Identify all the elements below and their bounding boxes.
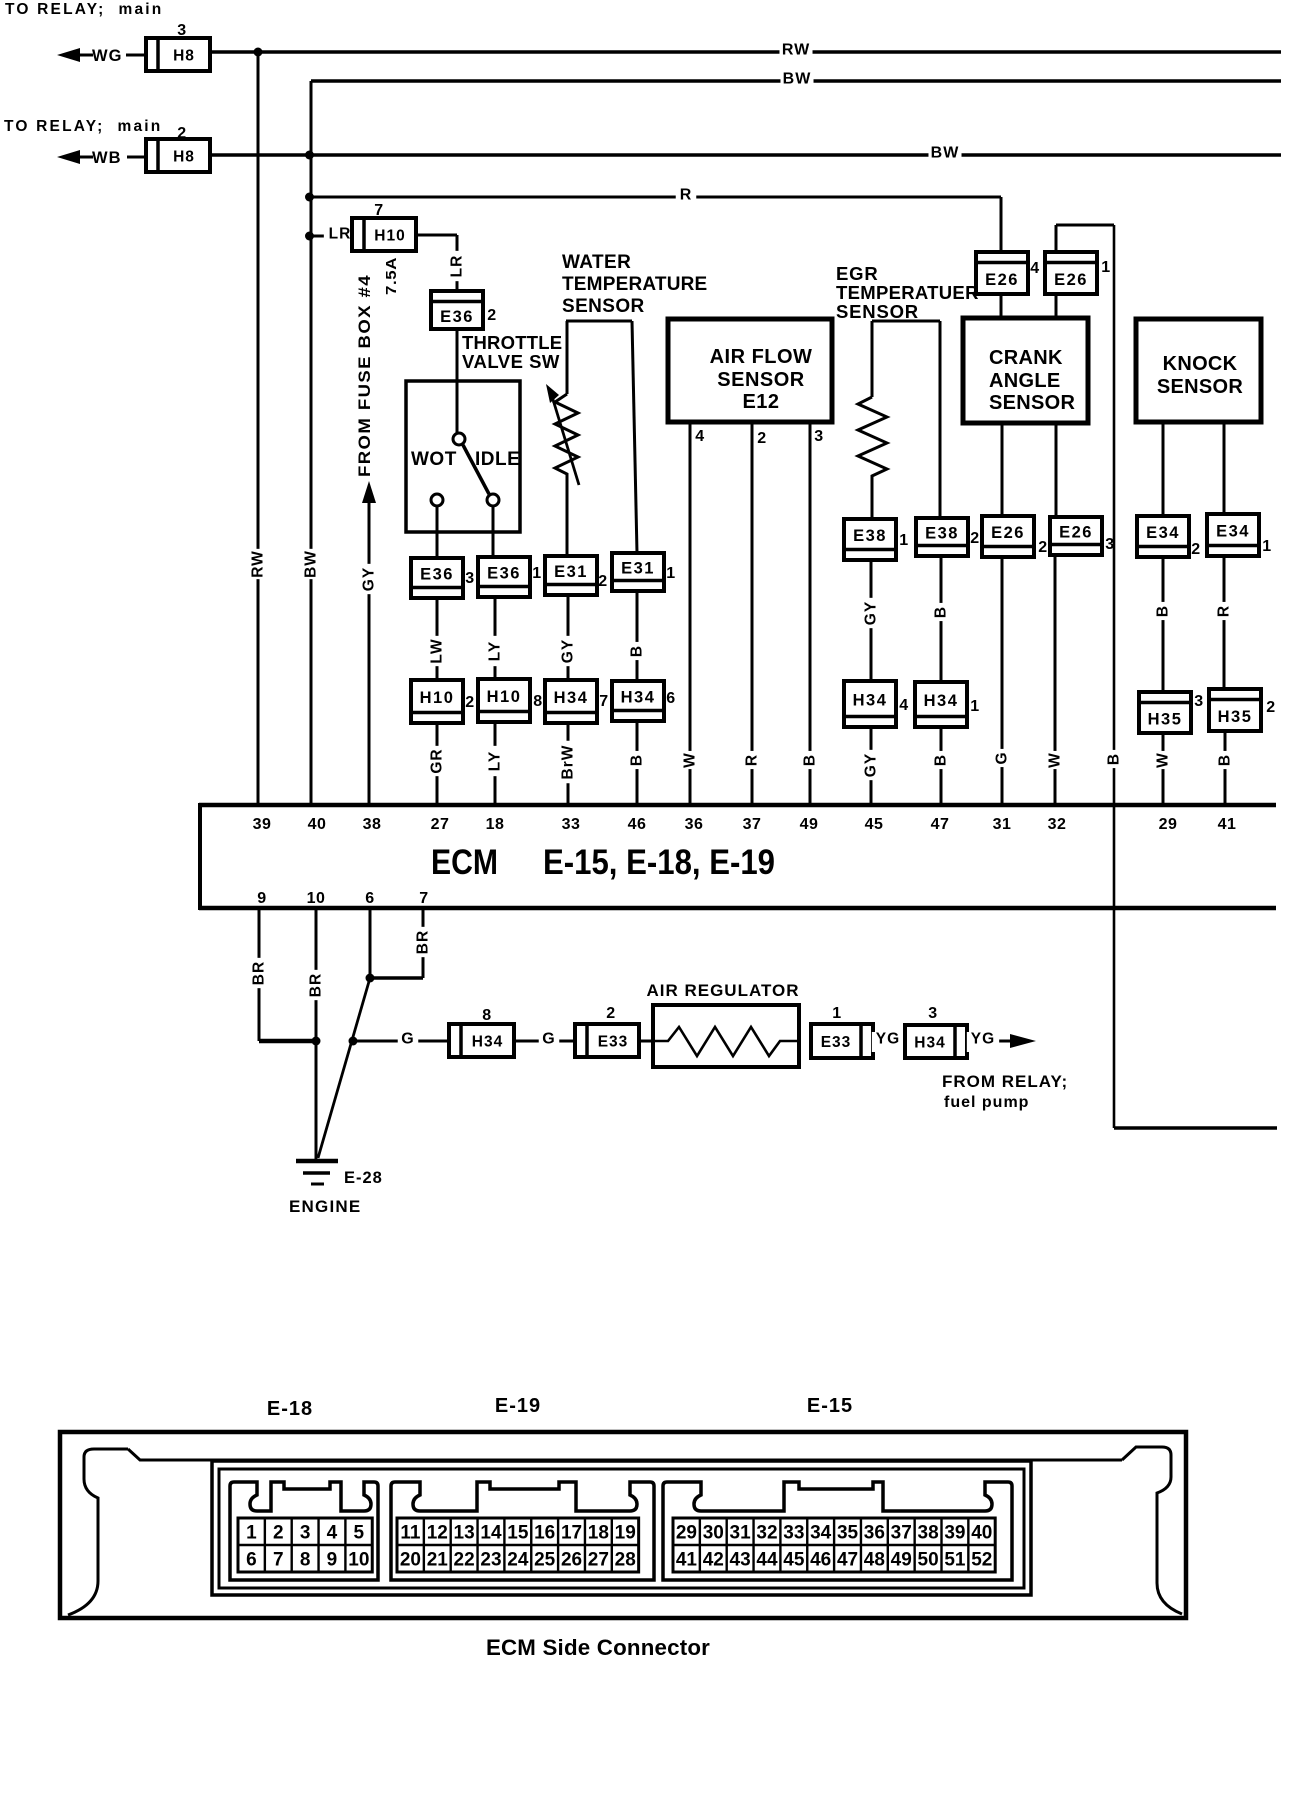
svg-text:3: 3 [465, 570, 474, 587]
wire R drop to E26 pin 4 [1000, 197, 1003, 252]
wire RW horizontal to right edge [258, 50, 1281, 54]
thermistor arrow [551, 393, 579, 485]
node junction R [305, 193, 314, 202]
svg-text:BW: BW [303, 550, 320, 578]
svg-text:H34: H34 [853, 692, 888, 710]
node junction LR [305, 232, 314, 241]
connector E31 pin 1 [612, 553, 664, 591]
svg-text:BR: BR [308, 973, 325, 997]
svg-text:E-18: E-18 [267, 1398, 313, 1420]
svg-text:3: 3 [300, 1523, 311, 1544]
svg-text:32: 32 [756, 1523, 777, 1544]
connector H10 pin 8 [478, 679, 530, 722]
wire pin7 to pin6 junction [370, 976, 423, 980]
ECM top edge [199, 803, 1276, 808]
wire GR to ECM pin 27 [436, 723, 439, 805]
node junction pin6 [366, 974, 375, 983]
svg-text:W: W [1155, 752, 1172, 768]
connector E34 pin 1 [1207, 514, 1259, 556]
svg-text:11: 11 [400, 1523, 421, 1544]
svg-text:8: 8 [482, 1007, 491, 1024]
svg-text:7.5A: 7.5A [383, 257, 400, 295]
svg-text:IDLE: IDLE [475, 449, 520, 470]
node junction RW at x258 [254, 48, 263, 57]
svg-text:LY: LY [487, 751, 504, 771]
node junction G line [349, 1037, 358, 1046]
svg-text:35: 35 [837, 1523, 859, 1544]
svg-text:46: 46 [628, 816, 647, 833]
svg-text:LR: LR [449, 255, 466, 278]
wire LR vertical to E36 pin 2 [456, 235, 459, 291]
svg-text:2: 2 [757, 430, 766, 447]
svg-text:18: 18 [588, 1523, 609, 1544]
wire B to ECM pin 49 [809, 422, 812, 805]
svg-text:34: 34 [810, 1523, 832, 1544]
switch WOT contact [431, 494, 443, 506]
svg-text:1: 1 [970, 698, 979, 715]
svg-text:3: 3 [1194, 693, 1203, 710]
connector E31 pin 2 [545, 556, 597, 595]
thermistor water temp [555, 394, 578, 480]
water temp sensor right lead [632, 321, 637, 553]
svg-text:27: 27 [588, 1550, 609, 1571]
svg-text:CRANK: CRANK [989, 347, 1063, 369]
svg-text:50: 50 [918, 1550, 939, 1571]
svg-text:13: 13 [454, 1523, 475, 1544]
svg-text:E-19: E-19 [495, 1395, 541, 1417]
svg-text:SENSOR: SENSOR [1157, 376, 1244, 398]
svg-text:G: G [401, 1031, 414, 1048]
connector block E-19 outline [391, 1482, 654, 1580]
svg-text:KNOCK: KNOCK [1163, 353, 1238, 375]
svg-text:9: 9 [327, 1550, 338, 1571]
svg-text:B: B [1106, 753, 1123, 765]
svg-text:6: 6 [666, 690, 675, 707]
svg-text:45: 45 [865, 816, 884, 833]
svg-text:VALVE SW: VALVE SW [462, 351, 560, 372]
svg-text:B: B [933, 754, 950, 766]
svg-text:47: 47 [837, 1550, 858, 1571]
svg-text:B: B [802, 754, 819, 766]
svg-text:E36: E36 [420, 566, 454, 584]
svg-text:47: 47 [931, 816, 950, 833]
svg-text:40: 40 [971, 1523, 992, 1544]
svg-text:38: 38 [363, 816, 382, 833]
arrow to relay (lower) [57, 150, 80, 164]
svg-text:39: 39 [253, 816, 272, 833]
svg-text:3: 3 [814, 428, 823, 445]
svg-text:WATER: WATER [562, 252, 631, 273]
svg-text:2: 2 [598, 573, 607, 590]
svg-text:ANGLE: ANGLE [989, 370, 1061, 392]
svg-text:43: 43 [730, 1550, 751, 1571]
wire GY vertical to ECM pin 38 [368, 500, 371, 805]
svg-text:40: 40 [308, 816, 327, 833]
terminal grid E-18 pins 1-10 [238, 1518, 372, 1572]
svg-text:1: 1 [1101, 259, 1110, 276]
wire B [636, 591, 639, 681]
svg-text:BR: BR [415, 930, 432, 954]
egr sensor left lead [871, 321, 874, 397]
switch blade [463, 445, 489, 494]
svg-text:3: 3 [928, 1005, 937, 1022]
svg-text:H34: H34 [924, 692, 959, 710]
connector E26 pin 1 [1045, 252, 1097, 294]
svg-text:6: 6 [365, 890, 374, 907]
svg-text:H8: H8 [173, 149, 195, 166]
svg-text:E31: E31 [621, 560, 655, 578]
connector E36 pin 3 [411, 558, 463, 598]
wire BrW to ECM pin 33 [567, 723, 570, 805]
svg-text:4: 4 [695, 428, 704, 445]
ECM left edge [198, 803, 202, 910]
wire IDLE contact to E36 pin 1 [492, 506, 495, 557]
svg-text:8: 8 [300, 1550, 311, 1571]
svg-text:2: 2 [487, 307, 496, 324]
wire YG out [967, 1040, 1012, 1043]
svg-text:1: 1 [666, 565, 675, 582]
wire G segment 2 [514, 1040, 575, 1043]
svg-text:SENSOR: SENSOR [717, 369, 805, 391]
svg-text:41: 41 [1218, 816, 1237, 833]
svg-text:B: B [933, 606, 950, 618]
svg-text:19: 19 [615, 1523, 636, 1544]
svg-text:36: 36 [685, 816, 704, 833]
ECM connector shell inner contour [68, 1449, 128, 1615]
connector E26 pin 4 [976, 252, 1028, 294]
svg-text:37: 37 [743, 816, 762, 833]
svg-text:H34: H34 [621, 689, 656, 707]
svg-text:2: 2 [1266, 699, 1275, 716]
connector H35 pin 3 [1139, 692, 1191, 733]
svg-text:1: 1 [832, 1005, 841, 1022]
water temp sensor top wire [566, 320, 632, 323]
svg-text:G: G [994, 751, 1011, 764]
svg-text:H34: H34 [554, 689, 589, 707]
svg-text:7: 7 [273, 1550, 284, 1571]
svg-text:E26: E26 [1054, 271, 1088, 289]
svg-text:27: 27 [431, 816, 450, 833]
svg-text:30: 30 [703, 1523, 724, 1544]
wire LW [436, 598, 439, 680]
wire BR from ECM pin 7 [422, 910, 425, 978]
svg-text:GY: GY [560, 639, 577, 663]
svg-text:H10: H10 [374, 228, 405, 245]
svg-text:TEMPERATUER: TEMPERATUER [836, 282, 979, 303]
svg-text:2: 2 [465, 694, 474, 711]
connector H34 pin 4 [844, 681, 896, 727]
svg-text:31: 31 [993, 816, 1012, 833]
svg-text:R: R [680, 187, 693, 204]
svg-text:E-15, E-18, E-19: E-15, E-18, E-19 [543, 843, 775, 882]
svg-text:4: 4 [899, 697, 908, 714]
svg-text:2: 2 [970, 530, 979, 547]
svg-text:RW: RW [250, 550, 267, 578]
svg-text:7: 7 [419, 890, 428, 907]
svg-text:AIR REGULATOR: AIR REGULATOR [646, 981, 799, 1000]
egr sensor top wire [872, 320, 940, 323]
connector H34 pin 3 [905, 1025, 967, 1058]
wire R to ECM pin 37 [751, 422, 754, 805]
svg-text:ECM Side Connector: ECM Side Connector [486, 1635, 710, 1660]
svg-text:38: 38 [918, 1523, 939, 1544]
terminal grid E-15 pins 29-52 [673, 1518, 995, 1572]
connector E36 pin 2 [431, 291, 483, 329]
svg-text:22: 22 [454, 1550, 475, 1571]
svg-text:LW: LW [429, 638, 446, 663]
svg-text:15: 15 [507, 1523, 529, 1544]
wire B to ECM pin 41 [1224, 731, 1227, 805]
svg-text:1: 1 [1262, 538, 1271, 555]
svg-text:33: 33 [783, 1523, 804, 1544]
connector E26 pin 3 [1050, 517, 1102, 555]
wire E26-4 into crank sensor [1000, 294, 1003, 318]
wire thermistor to E31 pin 2 [566, 480, 569, 556]
svg-text:33: 33 [562, 816, 581, 833]
connector H10 pin 7 [352, 218, 416, 251]
svg-text:1: 1 [246, 1523, 257, 1544]
svg-text:36: 36 [864, 1523, 885, 1544]
svg-text:SENSOR: SENSOR [836, 301, 919, 322]
svg-text:LR: LR [329, 226, 352, 243]
wire B to ECM pin 46 [636, 721, 639, 805]
svg-text:9: 9 [257, 890, 266, 907]
svg-text:17: 17 [561, 1523, 582, 1544]
svg-text:23: 23 [480, 1550, 501, 1571]
svg-text:E26: E26 [1059, 524, 1093, 542]
wire LY [494, 597, 497, 679]
svg-text:24: 24 [507, 1550, 529, 1571]
svg-text:B: B [629, 645, 646, 657]
connector E38 pin 1 [844, 519, 896, 560]
svg-text:E36: E36 [487, 565, 521, 583]
ECM connector shell outer [60, 1432, 1186, 1618]
wire B bus bottom to right edge [1114, 1126, 1277, 1130]
svg-text:7: 7 [599, 693, 608, 710]
svg-text:4: 4 [1030, 260, 1039, 277]
wire B [940, 556, 943, 682]
wire crank sensor to E26 pin 2 [1001, 423, 1004, 516]
svg-text:R: R [1216, 605, 1233, 617]
svg-text:BW: BW [783, 71, 812, 88]
svg-text:fuel pump: fuel pump [944, 1094, 1029, 1111]
connector H34 pin 8 [449, 1024, 514, 1057]
connector H8 pin 3 [146, 38, 210, 71]
ECM bottom edge [199, 906, 1276, 911]
svg-text:GY: GY [863, 753, 880, 777]
svg-text:26: 26 [561, 1550, 582, 1571]
arrow to relay (upper) [57, 48, 80, 62]
wire BW from H8 through junction to right edge [210, 153, 1281, 157]
svg-text:31: 31 [730, 1523, 752, 1544]
svg-text:E33: E33 [598, 1034, 629, 1051]
svg-text:FROM FUSE BOX #4: FROM FUSE BOX #4 [355, 274, 374, 477]
wire G segment 1 [353, 1040, 449, 1043]
svg-text:BrW: BrW [560, 745, 577, 780]
svg-text:1: 1 [899, 532, 908, 549]
svg-text:WG: WG [92, 47, 122, 65]
svg-text:E-28: E-28 [344, 1169, 383, 1187]
svg-text:TO RELAY; main: TO RELAY; main [5, 1, 163, 18]
connector blocks inner frame [219, 1469, 1024, 1588]
wire E26-1 up and over to B bus [1055, 225, 1058, 252]
svg-text:48: 48 [864, 1550, 885, 1571]
svg-text:THROTTLE: THROTTLE [462, 332, 562, 353]
wire W to ECM pin 32 [1054, 555, 1057, 805]
svg-text:W: W [682, 752, 699, 768]
wire crank sensor to E26 pin 3 [1055, 423, 1058, 517]
node junction BW at x309 [305, 151, 314, 160]
svg-text:14: 14 [480, 1523, 502, 1544]
wire diagonal to engine ground [318, 978, 370, 1158]
connector E38 pin 2 [916, 518, 968, 556]
svg-text:B: B [1155, 605, 1172, 617]
wire pin9 to pin10 junction [259, 1039, 316, 1044]
wire LY to ECM pin 18 [494, 722, 497, 805]
svg-text:2: 2 [606, 1005, 615, 1022]
svg-text:41: 41 [676, 1550, 698, 1571]
svg-text:FROM RELAY;: FROM RELAY; [942, 1072, 1068, 1091]
svg-text:EGR: EGR [836, 263, 879, 284]
svg-text:46: 46 [810, 1550, 831, 1571]
svg-text:8: 8 [533, 693, 542, 710]
svg-text:SENSOR: SENSOR [562, 296, 645, 317]
connector block E-18 outline [230, 1482, 378, 1580]
wire B to ECM pin 47 [940, 727, 943, 805]
svg-text:RW: RW [782, 42, 810, 59]
air flow sensor box [668, 319, 832, 422]
switch IDLE contact [487, 494, 499, 506]
svg-text:H34: H34 [472, 1034, 503, 1051]
svg-text:E33: E33 [821, 1034, 852, 1051]
wire BW corner vertical segment [310, 81, 313, 155]
wire RW from H8 to junction [210, 50, 258, 54]
arrow up from fuse box wire [362, 481, 376, 503]
wire G to ECM pin 31 [1001, 557, 1004, 805]
svg-text:16: 16 [534, 1523, 555, 1544]
svg-text:2: 2 [273, 1523, 284, 1544]
svg-text:52: 52 [971, 1550, 992, 1571]
svg-text:E12: E12 [742, 391, 779, 413]
svg-text:ENGINE: ENGINE [289, 1197, 361, 1216]
svg-text:E36: E36 [440, 308, 474, 326]
svg-text:H10: H10 [420, 689, 455, 707]
connector E34 pin 2 [1137, 516, 1189, 557]
arrow to relay fuel pump [1010, 1034, 1036, 1048]
svg-text:E-15: E-15 [807, 1395, 853, 1417]
svg-text:5: 5 [354, 1523, 365, 1544]
connector E33 pin 1 [811, 1024, 873, 1058]
connector H34 pin 6 [612, 681, 664, 721]
svg-text:G: G [542, 1031, 555, 1048]
wire GY [870, 560, 873, 681]
wire WG to connector [126, 54, 146, 57]
svg-text:GR: GR [429, 748, 446, 773]
svg-text:E34: E34 [1146, 524, 1180, 542]
connector block E-15 outline [663, 1482, 1012, 1580]
svg-text:45: 45 [783, 1550, 805, 1571]
switch common contact [453, 433, 465, 445]
svg-text:28: 28 [615, 1550, 636, 1571]
svg-text:WB: WB [92, 149, 122, 167]
svg-text:44: 44 [756, 1550, 778, 1571]
svg-text:10: 10 [348, 1550, 369, 1571]
wire BW upper horizontal to right edge [311, 79, 1281, 83]
svg-text:25: 25 [534, 1550, 556, 1571]
wire E26-1 into crank sensor [1055, 294, 1058, 318]
svg-text:GY: GY [361, 567, 378, 591]
svg-text:H35: H35 [1218, 708, 1253, 726]
wire into air regulator [639, 1040, 655, 1043]
wire W to ECM pin 29 [1162, 733, 1165, 805]
svg-text:6: 6 [246, 1550, 257, 1571]
connector H34 pin 7 [545, 680, 597, 723]
svg-text:2: 2 [1038, 539, 1047, 556]
wire from ECM pin 6 [369, 910, 372, 978]
connector H34 pin 1 [915, 682, 967, 727]
svg-text:LY: LY [487, 641, 504, 661]
wire W to ECM pin 36 [689, 422, 692, 805]
svg-text:YG: YG [971, 1031, 995, 1048]
air regulator box [653, 1005, 799, 1067]
air regulator coil [653, 1027, 799, 1056]
svg-text:29: 29 [676, 1523, 697, 1544]
svg-text:32: 32 [1048, 816, 1067, 833]
connector E33 pin 2 [575, 1024, 639, 1057]
connector E26 pin 2 [982, 516, 1034, 557]
wire GY [567, 595, 570, 680]
svg-text:H35: H35 [1148, 710, 1183, 728]
wire LR stub [310, 235, 353, 238]
svg-text:BR: BR [251, 961, 268, 985]
svg-text:37: 37 [891, 1523, 912, 1544]
svg-text:E26: E26 [991, 524, 1025, 542]
wire B bus vertical [1113, 225, 1116, 1128]
svg-text:E38: E38 [925, 525, 959, 543]
svg-text:W: W [1047, 752, 1064, 768]
wire from H10 to throttle feed corner [416, 234, 457, 237]
wire knock sensor to E34 pin 1 [1223, 423, 1226, 514]
svg-text:E26: E26 [985, 271, 1019, 289]
svg-text:SENSOR: SENSOR [989, 392, 1076, 414]
wire YG segment [873, 1040, 905, 1043]
thermistor egr [858, 397, 887, 480]
svg-text:49: 49 [800, 816, 819, 833]
connector H35 pin 2 [1209, 689, 1261, 731]
connector H10 pin 2 [411, 680, 463, 723]
wire R horizontal [310, 196, 1002, 199]
svg-text:H10: H10 [487, 688, 522, 706]
svg-text:21: 21 [427, 1550, 449, 1571]
svg-text:TEMPERATURE: TEMPERATURE [562, 274, 707, 295]
terminal grid E-19 pins 11-28 [397, 1518, 639, 1572]
svg-text:20: 20 [400, 1550, 421, 1571]
wire GY to ECM pin 45 [870, 727, 873, 805]
wire B [1162, 557, 1165, 692]
svg-text:12: 12 [427, 1523, 448, 1544]
egr sensor right lead [939, 321, 942, 518]
wire RW vertical to ECM pin 39 [257, 52, 260, 805]
svg-text:AIR FLOW: AIR FLOW [710, 346, 813, 368]
svg-text:R: R [744, 754, 761, 766]
svg-text:BW: BW [931, 145, 960, 162]
svg-text:H34: H34 [914, 1035, 945, 1052]
svg-text:10: 10 [307, 890, 326, 907]
wire to E38 pin 1 [871, 480, 874, 519]
svg-text:ECM: ECM [431, 843, 498, 882]
crank angle sensor box [963, 318, 1088, 423]
wire WB to connector [127, 156, 146, 159]
